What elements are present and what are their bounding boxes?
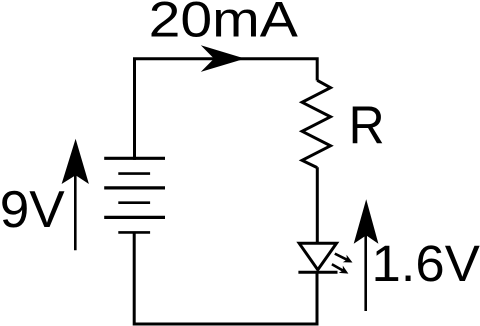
battery long plate 3 bbox=[104, 216, 165, 219]
voltage arrow 9V (battery) bbox=[62, 139, 89, 251]
svg-text:R: R bbox=[349, 95, 385, 155]
wire: battery positive up, across top, down to resistor top bbox=[135, 59, 318, 160]
wire: resistor bottom to LED anode bbox=[316, 167, 319, 244]
battery BT1 (9V) bbox=[104, 158, 165, 232]
battery short plate 2 bbox=[118, 201, 150, 204]
LED D1 bbox=[298, 243, 337, 272]
battery long plate 2 bbox=[104, 186, 165, 189]
svg-text:20mA: 20mA bbox=[149, 0, 298, 48]
svg-text:9V: 9V bbox=[0, 180, 65, 239]
battery short plate 3 (-) bbox=[118, 231, 150, 234]
current arrow (direction of 20mA) bbox=[201, 45, 245, 72]
battery short plate 1 bbox=[118, 172, 150, 175]
LED emission arrow upper bbox=[335, 254, 353, 263]
battery long plate 1 (+) bbox=[104, 157, 165, 160]
resistor R bbox=[302, 80, 330, 167]
LED cathode bar bbox=[298, 271, 337, 274]
wire: LED cathode down, bottom, up to battery negative bbox=[134, 232, 317, 325]
voltage arrow 1.6V (LED) bbox=[354, 199, 379, 311]
svg-text:1.6V: 1.6V bbox=[372, 235, 480, 292]
LED triangle (anode) bbox=[299, 243, 336, 269]
LED emission arrow lower bbox=[332, 264, 349, 273]
